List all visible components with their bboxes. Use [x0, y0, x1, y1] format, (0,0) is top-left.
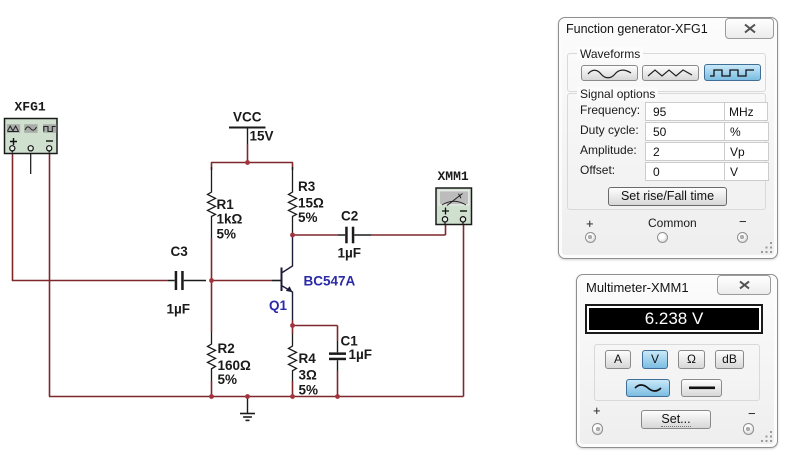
wire: C1 bottom to rail [337, 371, 339, 397]
node: emitter/C1 junction [290, 323, 295, 328]
svg-text:1µF: 1µF [338, 246, 362, 261]
node: VCC/top-rail junction [245, 160, 250, 165]
node: ground on rail [245, 394, 250, 399]
field Frequency [580, 103, 640, 117]
svg-text:R1: R1 [217, 197, 235, 212]
resistor R4 [289, 334, 297, 381]
wire: VCC stem red part [247, 144, 249, 163]
svg-text:1µF: 1µF [167, 302, 191, 317]
waveform button sine [581, 65, 638, 81]
wire: bottom ground rail [49, 396, 464, 398]
label BC547A [304, 274, 356, 289]
resistor R3 [289, 167, 297, 235]
instrument icon XFG1 [5, 119, 58, 175]
label XFG1 [15, 100, 46, 115]
svg-text:5%: 5% [298, 210, 318, 225]
label C3 values [167, 244, 191, 317]
dialog: Function generator-XFG1 [558, 17, 778, 259]
wire: R4 branch red segments [292, 325, 294, 397]
node: collector/C2 junction [290, 233, 295, 238]
wire: base wire from junction to Q1 [212, 280, 273, 282]
label 15V [250, 129, 274, 144]
button Set rise/Fall time [608, 187, 727, 207]
close button FG [725, 18, 774, 39]
power VCC symbol [229, 128, 266, 145]
ground [240, 397, 255, 421]
wire: XFG1 - terminal down to ground rail [49, 152, 51, 397]
svg-text:XFG1: XFG1 [15, 100, 46, 115]
label R4 values [299, 351, 319, 398]
wire: R3 branch red segments [292, 163, 294, 171]
svg-text:R3: R3 [298, 179, 316, 194]
wire: XMM1 - terminal down to rail [463, 224, 465, 397]
group Waveforms [567, 53, 766, 92]
node: R4 on rail [290, 394, 295, 399]
svg-text:C3: C3 [171, 244, 189, 259]
button Set... [641, 410, 711, 429]
wire: XFG1 + to C3 horizontal [12, 280, 168, 282]
svg-text:C2: C2 [341, 209, 358, 224]
svg-text:5%: 5% [218, 372, 238, 387]
svg-text:5%: 5% [217, 227, 237, 242]
node: base/C3 junction [209, 278, 214, 283]
button V (selected) [642, 350, 668, 369]
svg-text:1kΩ: 1kΩ [217, 212, 243, 227]
capacitor C2 [338, 227, 371, 244]
svg-text:160Ω: 160Ω [218, 358, 252, 373]
wire: collector node to C2 [293, 234, 339, 236]
node: R2 on rail [209, 394, 214, 399]
field Amplitude [580, 143, 637, 157]
field Offset [580, 163, 615, 177]
button AC (selected) [626, 379, 670, 397]
label XMM1 [438, 169, 469, 184]
button Ohm [678, 350, 705, 369]
close button MM [717, 275, 771, 295]
wire: top rail R1 to R3 [211, 162, 293, 164]
resistor R1 [208, 167, 216, 238]
label R3 values [298, 179, 324, 225]
svg-text:Q1: Q1 [269, 298, 288, 313]
instrument icon XMM1 [436, 188, 472, 225]
group Signal options [567, 93, 766, 210]
multimeter display [585, 304, 763, 334]
wire: C2 to XMM1 + [371, 224, 446, 235]
label C2 values [338, 209, 362, 261]
field Duty cycle [580, 123, 639, 137]
svg-text:1µF: 1µF [349, 347, 373, 362]
label R2 values [218, 341, 252, 387]
MM resize grip [761, 431, 773, 443]
svg-text:15Ω: 15Ω [298, 196, 324, 211]
transistor Q1 [272, 235, 293, 320]
button A [605, 350, 631, 369]
svg-text:R4: R4 [299, 351, 317, 366]
button dB [715, 350, 744, 369]
group box buttons [594, 344, 760, 401]
capacitor C1 [329, 341, 346, 371]
label C1 values [341, 334, 373, 363]
svg-text:XMM1: XMM1 [438, 169, 469, 184]
FG terminals [586, 216, 594, 231]
wire: R2 branch red segments [211, 280, 213, 397]
wire: XFG1 + terminal down [12, 152, 14, 281]
MM terminals [593, 403, 601, 418]
waveform button square (selected) [704, 64, 761, 81]
label R1 values [217, 197, 243, 242]
svg-text:15V: 15V [250, 129, 274, 144]
capacitor C3 [168, 271, 206, 290]
svg-text:VCC: VCC [233, 110, 262, 125]
svg-text:3Ω: 3Ω [299, 368, 318, 383]
resistor R2 [208, 332, 216, 381]
waveform button triangle [642, 65, 699, 81]
wire: emitter to node [292, 320, 294, 326]
wire: emitter node to C1 [293, 326, 338, 342]
svg-text:BC547A: BC547A [304, 274, 356, 289]
dialog: Multimeter-XMM1 [576, 274, 778, 448]
wire: R1 branch red segments [211, 163, 213, 282]
button DC [681, 379, 722, 397]
svg-text:5%: 5% [299, 383, 319, 398]
label Q1 [269, 298, 288, 313]
label VCC [233, 110, 262, 125]
svg-text:R2: R2 [218, 341, 235, 356]
node: C1 on rail [335, 394, 340, 399]
FG resize grip [761, 242, 773, 254]
